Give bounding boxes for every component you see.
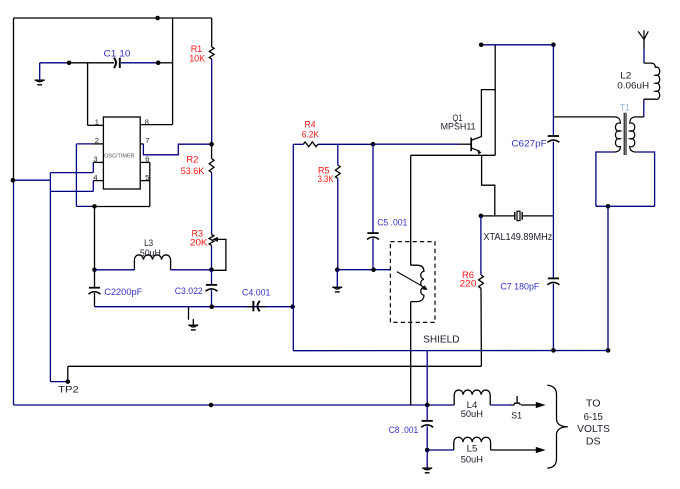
ground sym near C3 — [192, 319, 194, 325]
ground sym top-left — [39, 63, 41, 80]
svg-text:C1 10: C1 10 — [104, 48, 131, 59]
capacitor C2 — [94, 270, 96, 288]
node dot C5 bottom — [371, 267, 376, 272]
transistor Q1 base bar — [470, 138, 472, 152]
wire left branch to rail — [14, 179, 51, 181]
resistor R6 — [480, 216, 482, 275]
svg-text:XTAL149.89MHz: XTAL149.89MHz — [483, 232, 552, 243]
node dot right of C1 — [156, 61, 161, 66]
ground stub near C3 — [188, 307, 190, 320]
R3 wiper arrow — [212, 237, 218, 242]
ground sym below C8 — [426, 450, 428, 468]
node dot left of C1 — [67, 61, 72, 66]
wire top right rail — [481, 44, 553, 46]
wire T1 load box — [596, 152, 614, 206]
svg-text:SHIELD: SHIELD — [423, 335, 459, 346]
svg-text:S1: S1 — [511, 410, 522, 421]
resistor R3 potentiometer — [209, 235, 214, 246]
wire collector riser to rail — [494, 45, 496, 156]
node dot at y350 right end — [606, 348, 611, 353]
wire pin5 pin6 route — [140, 161, 150, 163]
resistor R5 — [337, 144, 339, 165]
svg-text:DS: DS — [586, 437, 601, 448]
capacitor C3 — [211, 270, 213, 285]
wire L3 row — [95, 269, 135, 271]
node dot C7 bottom — [551, 348, 556, 353]
svg-text:20K: 20K — [190, 237, 208, 248]
wire mid vertical x293 — [292, 144, 294, 350]
wire coil bottom lead — [410, 302, 412, 405]
op-amp U1 555 timer IC body — [103, 117, 140, 189]
wire TP2 to R6 long horizontal — [67, 366, 69, 381]
svg-text:T1: T1 — [620, 102, 630, 113]
node TP2 dot — [66, 379, 71, 384]
node dot rail/R4 vertical — [290, 304, 295, 309]
wire ground bus y350 — [293, 350, 608, 352]
svg-text:3.3K: 3.3K — [318, 173, 335, 184]
svg-text:10K: 10K — [189, 53, 206, 64]
wire coil top lead — [410, 155, 412, 265]
inductor L5 — [454, 437, 491, 450]
ground sym below R5 — [336, 270, 338, 287]
Q1 collector — [472, 90, 495, 140]
node dot pin7/R1/R2 — [209, 142, 214, 147]
capacitor C5 — [372, 144, 374, 233]
svg-text:C2200pF: C2200pF — [104, 286, 142, 297]
wire pin2 route — [93, 143, 103, 145]
svg-text:TP2: TP2 — [58, 385, 78, 396]
wire timing node vertical — [94, 206, 96, 269]
wire S1 to arrow — [521, 404, 537, 406]
inductor slug coil — [411, 265, 424, 301]
svg-text:C627pF: C627pF — [511, 137, 547, 148]
inductor L4 — [454, 390, 490, 405]
wire pin4 route — [93, 180, 103, 182]
svg-text:0.06uH: 0.06uH — [617, 79, 649, 90]
resistor R2 — [211, 144, 213, 158]
capacitor C8 — [426, 405, 428, 421]
switch S1 — [511, 403, 520, 405]
svg-text:L5: L5 — [467, 442, 478, 453]
svg-text:6-15: 6-15 — [584, 412, 603, 423]
wire L4 to S1 — [490, 404, 512, 406]
svg-text:6.2K: 6.2K — [302, 129, 320, 140]
node dot rail right end — [551, 43, 556, 48]
svg-text:8: 8 — [145, 118, 149, 127]
transformer T1 primary winding — [553, 116, 614, 118]
node dot on left rail — [11, 178, 16, 183]
capacitor C4 — [247, 306, 253, 308]
wire pin8 riser — [172, 18, 174, 125]
svg-text:C5 .001: C5 .001 — [377, 217, 407, 228]
svg-text:VOLTS: VOLTS — [577, 424, 610, 435]
svg-text:C4.001: C4.001 — [242, 287, 270, 298]
svg-text:220: 220 — [460, 278, 477, 289]
capacitor C6 — [548, 135, 559, 137]
svg-text:OSC/TIMER: OSC/TIMER — [104, 154, 135, 160]
wire pin7 route — [140, 143, 143, 145]
wire L2 to T1 secondary — [643, 99, 645, 117]
svg-text:50uH: 50uH — [461, 453, 483, 464]
wire C6 C7 vertical — [552, 45, 554, 136]
wire pin3 route — [93, 161, 103, 163]
node dot R5 bottom — [335, 267, 340, 272]
resistor R4 — [303, 142, 318, 147]
svg-text:7: 7 — [145, 136, 149, 145]
svg-text:MPSH11: MPSH11 — [441, 121, 476, 132]
svg-text:C8 .001: C8 .001 — [389, 424, 419, 435]
node dot C3 rail — [209, 304, 214, 309]
R3 wiper feedback wire — [211, 239, 226, 270]
node dot C8 bottom — [425, 448, 430, 453]
node junction dot on top rail — [155, 16, 160, 21]
node dot rail left end — [479, 43, 484, 48]
wire L5 row — [427, 449, 454, 451]
svg-text:R2: R2 — [186, 154, 198, 165]
wire left rail vertical — [13, 18, 15, 180]
wire ground rail y306 — [95, 306, 293, 308]
shield dashed box — [390, 242, 435, 323]
wire R5/C5 link — [337, 269, 390, 271]
node dot on bottom rail — [209, 403, 214, 408]
wire C1 line horizontal — [40, 62, 69, 64]
node dot crystal node — [479, 214, 484, 219]
wire bottom rail — [14, 404, 455, 406]
inductor L2 — [644, 63, 660, 99]
svg-text:50uH: 50uH — [461, 408, 483, 419]
svg-text:C3.022: C3.022 — [175, 285, 203, 296]
wire T1 common drop — [607, 206, 609, 350]
slug arrow — [397, 272, 424, 288]
node dot L3/R3 — [209, 268, 214, 273]
svg-text:53.6K: 53.6K — [181, 165, 205, 176]
arrow bottom feed — [536, 447, 546, 453]
inductor L3 — [134, 255, 170, 270]
node dot base/C5 — [371, 142, 376, 147]
wire emitter zigzag to crystal node — [482, 155, 495, 216]
wire TP2 drop vertical — [49, 173, 51, 382]
antenna — [638, 30, 644, 39]
transformer T1 secondary winding — [636, 116, 644, 118]
wire base line y144 — [293, 143, 303, 145]
svg-text:TO: TO — [586, 398, 601, 409]
svg-text:50uH: 50uH — [140, 247, 161, 258]
resistor R1 — [211, 18, 213, 47]
capacitor C7 — [548, 277, 559, 279]
node dot T1 common — [606, 204, 611, 209]
node dot at C2/L3 — [92, 268, 97, 273]
svg-text:1: 1 — [95, 118, 99, 127]
arrow top feed — [536, 402, 546, 408]
svg-text:C7 180pF: C7 180pF — [500, 280, 539, 291]
curly brace — [547, 385, 568, 468]
wire C8 branch vertical — [426, 351, 428, 405]
wire L5 to arrow — [491, 449, 537, 451]
capacitor C1 — [114, 58, 116, 68]
wire pin1 riser — [87, 63, 89, 126]
transformer T1 core — [623, 113, 625, 155]
crystal XTAL — [495, 215, 515, 217]
wire top rail V+ — [14, 17, 212, 19]
node dot below IC — [92, 204, 97, 209]
Q1 emitter with arrow — [472, 148, 480, 151]
wire emitter row — [411, 154, 496, 156]
node dot C8 top on rail — [425, 403, 430, 408]
